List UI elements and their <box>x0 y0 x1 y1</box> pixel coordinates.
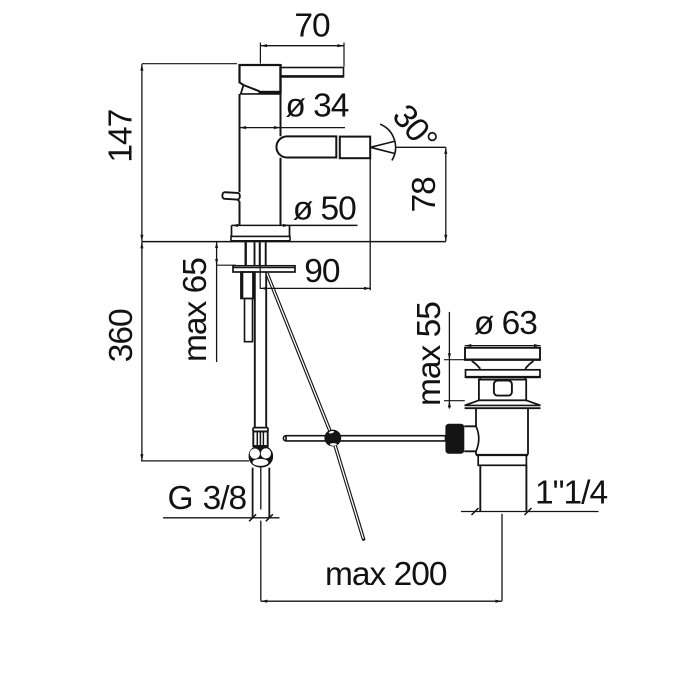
hose connector flare <box>253 428 268 432</box>
label G3/8 leader <box>163 514 280 521</box>
flexible hose <box>255 272 266 428</box>
svg-text:90: 90 <box>304 253 340 290</box>
faucet body left edge <box>239 94 241 225</box>
svg-text:max 65: max 65 <box>177 258 214 362</box>
svg-text:147: 147 <box>103 110 140 163</box>
svg-text:ø 63: ø 63 <box>474 305 537 342</box>
spray direction arrow <box>370 141 445 154</box>
drain body hole <box>494 381 512 396</box>
svg-text:max 200: max 200 <box>325 556 447 593</box>
hose end ball nut <box>249 445 274 468</box>
dimension 70 <box>260 43 344 67</box>
dimension 360 <box>140 242 249 461</box>
pipe below ball nut <box>253 468 270 518</box>
faucet body right edge <box>280 94 282 225</box>
hose connector ribbed nut <box>253 431 267 446</box>
horizontal drain rod <box>283 436 445 441</box>
mounting nut block <box>241 272 255 299</box>
30 degree arc <box>380 124 395 160</box>
dimension 78 <box>444 147 447 241</box>
dimension 147 <box>140 64 237 242</box>
drain tail tube <box>480 465 526 511</box>
ball joint <box>324 430 341 447</box>
aerator tip <box>340 137 370 159</box>
axis extension line for 90 <box>259 242 261 288</box>
svg-text:ø 34: ø 34 <box>285 88 348 125</box>
dashed centerline below pipe <box>260 468 262 601</box>
diagonal pop-up rod upper <box>267 274 333 439</box>
drain centerline <box>501 514 503 601</box>
dimension max 65 <box>215 242 236 362</box>
deck line <box>142 241 446 243</box>
dimension diameter 34 <box>240 126 346 129</box>
dimension diameter 63 <box>465 344 541 347</box>
knob collar <box>464 426 476 451</box>
deck flange <box>231 225 290 240</box>
drain cap flange <box>464 348 541 369</box>
svg-text:360: 360 <box>103 309 140 362</box>
dimension 1"1/4 <box>461 508 599 515</box>
drain neck lower <box>480 377 525 380</box>
cartridge cap dark band <box>240 91 281 94</box>
svg-text:ø 50: ø 50 <box>293 190 356 227</box>
diagonal pop-up rod lower <box>333 438 364 539</box>
svg-text:1"1/4: 1"1/4 <box>535 475 607 512</box>
knurled adjuster knob <box>445 424 464 454</box>
lever handle bar <box>281 68 344 77</box>
dimension max 55 <box>444 312 465 409</box>
dimension 90 <box>260 159 371 291</box>
svg-text:70: 70 <box>294 8 330 45</box>
spout <box>276 136 336 157</box>
svg-text:max 55: max 55 <box>411 302 448 406</box>
drain upper tube <box>476 408 528 454</box>
mounting washer plate <box>233 266 295 272</box>
dimension max 200 <box>261 600 502 603</box>
faucet handle housing <box>240 64 281 94</box>
dimension diameter 50 <box>232 224 358 227</box>
pop-up knob on body <box>222 192 240 202</box>
drain nut band <box>476 455 528 465</box>
pop-up rod tube below nut <box>245 299 253 342</box>
drain disc <box>466 370 541 378</box>
studs below deck <box>246 242 266 265</box>
drain body block <box>479 380 526 401</box>
drain cone flange <box>465 400 541 408</box>
svg-text:78: 78 <box>406 177 443 213</box>
svg-text:G3/8: G3/8 <box>168 480 247 517</box>
